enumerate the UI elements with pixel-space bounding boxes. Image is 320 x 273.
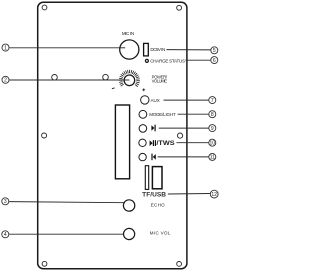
previous track button [139, 153, 146, 160]
leader line 10 [176, 142, 208, 144]
svg-text:10: 10 [210, 140, 216, 146]
callout 3 [2, 198, 9, 205]
leader line 2 to power/volume knob [9, 79, 129, 81]
svg-text:DC5V IN: DC5V IN [150, 47, 165, 52]
screw bottom-right [177, 262, 182, 267]
leader line 3 to echo knob [9, 202, 125, 203]
callout 12 [210, 190, 218, 198]
svg-text:7: 7 [211, 98, 214, 104]
svg-text:6: 6 [213, 58, 216, 64]
charge status LED [145, 59, 148, 62]
screw bottom-left [42, 261, 47, 266]
callout 1 [2, 44, 9, 51]
svg-text:9: 9 [211, 126, 214, 132]
svg-text:TF/USB: TF/USB [142, 191, 166, 198]
svg-text:MIC VOL: MIC VOL [150, 230, 171, 235]
leader line 7 [164, 99, 209, 101]
svg-text:11: 11 [210, 155, 215, 161]
svg-text:/TWS: /TWS [156, 141, 174, 147]
callout 8 [209, 111, 216, 118]
svg-text:MODE/LIGHT: MODE/LIGHT [149, 112, 176, 117]
svg-text:ECHO: ECHO [151, 202, 165, 207]
echo knob [123, 200, 134, 211]
svg-text:12: 12 [211, 192, 217, 198]
power/volume knob ticks [121, 84, 124, 86]
leader line 5 [166, 49, 210, 51]
leader line 4 to mic vol knob [9, 233, 124, 235]
MODE/LIGHT button [139, 110, 147, 118]
power/volume knob [124, 75, 135, 86]
DC5V IN port [144, 43, 149, 56]
svg-text:4: 4 [4, 232, 7, 238]
svg-text:5: 5 [213, 48, 216, 54]
leader line 6 [185, 59, 210, 61]
svg-text:CHARGE STATUS: CHARGE STATUS [150, 59, 185, 64]
svg-text:AUX: AUX [151, 98, 160, 103]
callout 4 [2, 231, 9, 238]
USB port [152, 167, 162, 189]
svg-text:2: 2 [4, 78, 7, 84]
svg-text:VOLUME: VOLUME [152, 79, 168, 84]
screw right of knob [103, 74, 109, 80]
previous track icon [151, 154, 152, 161]
play-pause icon [150, 140, 153, 146]
leader line 1 to MIC IN jack [9, 47, 125, 49]
screw left of knob [52, 75, 58, 81]
svg-text:3: 3 [4, 199, 7, 205]
panel outline [38, 2, 187, 268]
TF card slot [145, 166, 148, 190]
play-pause TWS button [139, 139, 146, 146]
screw top-right [177, 5, 182, 10]
minus mark [112, 87, 115, 90]
next track icon [151, 125, 154, 131]
svg-text:1: 1 [4, 45, 7, 51]
callout 2 [2, 76, 9, 83]
callout 9 [209, 125, 216, 132]
svg-text:MIC IN: MIC IN [122, 31, 134, 36]
leader line 8 [178, 113, 209, 115]
callout 11 [209, 153, 216, 160]
callout 10 [209, 139, 216, 146]
MIC IN jack [120, 40, 139, 59]
next track button [139, 125, 147, 133]
bass reflex port (tall rectangle) [115, 105, 129, 179]
callout 5 [211, 47, 218, 54]
plus mark [142, 89, 145, 91]
leader line 12 [168, 193, 210, 196]
callout 7 [209, 97, 216, 104]
callout 6 [211, 57, 218, 64]
mic volume knob [124, 228, 135, 239]
screw mid-right [178, 133, 183, 138]
screw mid-left [42, 133, 47, 138]
leader line 11 [158, 156, 209, 158]
svg-text:8: 8 [211, 112, 214, 118]
screw top-left [42, 5, 47, 10]
leader line 9 [159, 127, 209, 129]
AUX button [141, 96, 149, 104]
